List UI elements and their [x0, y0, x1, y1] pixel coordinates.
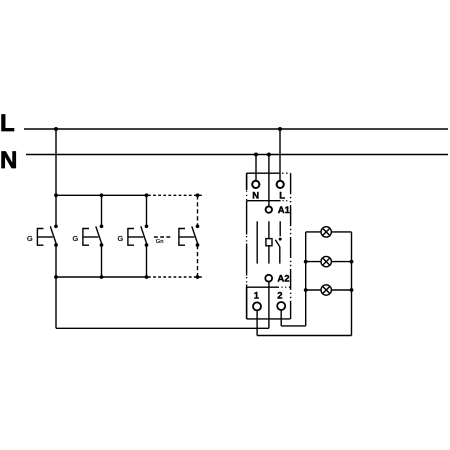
svg-text:A2: A2 [277, 274, 289, 285]
svg-text:G: G [118, 234, 124, 243]
svg-text:L: L [0, 110, 15, 137]
svg-text:A1: A1 [278, 205, 291, 216]
svg-text:G: G [27, 234, 33, 243]
svg-text:1: 1 [254, 290, 260, 301]
svg-text:N: N [0, 147, 17, 174]
svg-text:2: 2 [277, 290, 282, 301]
svg-text:G: G [73, 234, 79, 243]
svg-text:N: N [252, 190, 259, 201]
svg-text:L: L [279, 190, 285, 201]
svg-text:Gn: Gn [156, 239, 164, 245]
